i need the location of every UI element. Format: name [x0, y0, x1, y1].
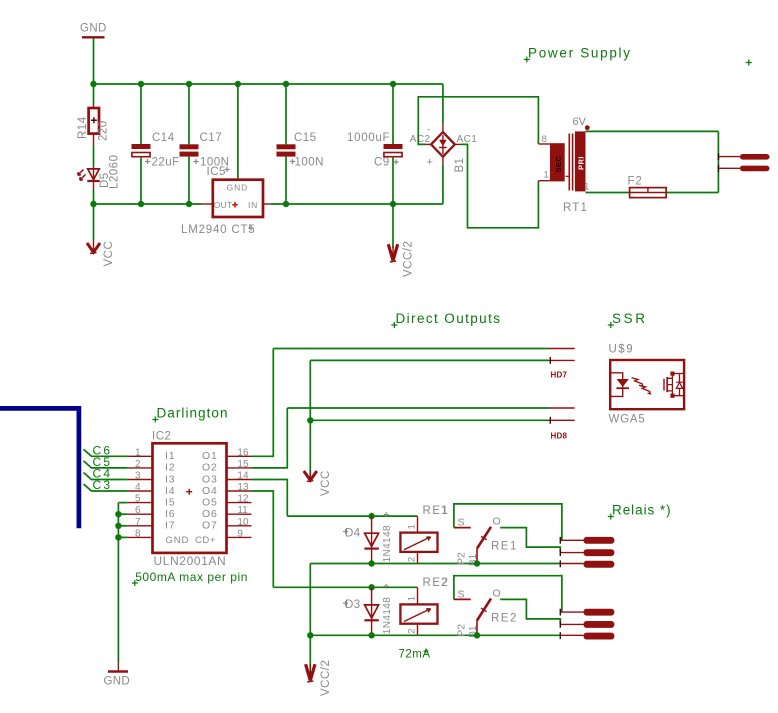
svg-text:1: 1: [544, 170, 549, 181]
contact arm: [477, 599, 491, 621]
wire VCC/2 stub down: [392, 204, 394, 248]
svg-text:P2: P2: [456, 552, 468, 565]
junction top bus at C17: [186, 81, 192, 87]
svg-text:RE1: RE1: [491, 541, 518, 553]
wire IC2 pin16 to HD7: [252, 349, 274, 457]
junction top bus at C14: [138, 81, 144, 87]
wire pin6 link: [118, 513, 127, 515]
svg-text:13: 13: [237, 482, 249, 493]
pivot pin P2/B1: [476, 549, 478, 564]
title Darlington: [152, 406, 228, 423]
primary winding PRI: [575, 131, 586, 191]
svg-text:D3: D3: [345, 599, 361, 611]
ground symbol GND (bottom): [104, 662, 130, 688]
wire IC2 pin13 to RE2 coil: [252, 491, 274, 587]
svg-text:I5: I5: [165, 496, 175, 508]
svg-text:1000uF: 1000uF: [347, 132, 390, 144]
junction bottom bus at C15: [283, 201, 289, 207]
svg-text:100N: 100N: [295, 157, 325, 169]
wire VCC vertical (HD7/HD8 common): [309, 360, 311, 478]
ground symbol GND (top left): [80, 23, 107, 38]
IC2 pin 14 (O3): [202, 471, 252, 486]
svg-text:I1: I1: [165, 450, 175, 462]
wire RE2 coil bottom (VCC/2): [310, 634, 560, 636]
svg-text:VCC/2: VCC/2: [403, 241, 415, 277]
svg-text:C15: C15: [294, 132, 317, 144]
label 500mA max per pin: [132, 570, 248, 586]
wire bridge minus output down to VCC rail: [442, 165, 444, 204]
svg-text:O6: O6: [202, 508, 218, 520]
IC2 pin 3 (I3): [128, 471, 176, 486]
wire O to middle connector pin: [500, 599, 560, 624]
svg-text:S: S: [458, 517, 465, 529]
pin stub SEC pin 8: [538, 143, 550, 145]
junction bottom bus at R14/D5: [90, 201, 96, 207]
svg-text:AC2: AC2: [410, 134, 431, 145]
svg-text:VCC: VCC: [103, 241, 115, 267]
junction pin 6: [115, 511, 121, 517]
pin stub IC5 OUT: [202, 203, 213, 205]
svg-text:11: 11: [237, 505, 248, 516]
svg-text:O: O: [493, 516, 501, 528]
pin HD8-2: [549, 417, 575, 424]
svg-text:16: 16: [237, 447, 249, 458]
svg-text:GND: GND: [80, 23, 107, 35]
svg-text:LM2940 CT5: LM2940 CT5: [181, 224, 255, 236]
svg-text:14: 14: [237, 471, 249, 482]
wire pin7 link: [118, 525, 127, 527]
svg-text:O7: O7: [202, 520, 218, 532]
svg-text:I2: I2: [165, 462, 175, 474]
svg-text:ULN2001AN: ULN2001AN: [154, 554, 227, 568]
supply symbol VCC/2 (under C9): [388, 241, 414, 277]
solid state relay U$9 WGA5: [609, 344, 685, 426]
junction top bus at R14: [90, 81, 96, 87]
svg-text:4: 4: [135, 482, 141, 493]
IC2 pin 6 (I6): [128, 505, 176, 520]
junction D4 cathode: [368, 560, 374, 566]
wire bus ripper C6 to pin 1: [84, 444, 128, 458]
wire IC5 GND pin to top bus: [237, 84, 239, 180]
wire HD8 top (from IC2 pin 15): [287, 407, 548, 409]
svg-text:8: 8: [542, 134, 547, 145]
svg-text:OUT: OUT: [214, 200, 233, 210]
svg-text:I6: I6: [165, 508, 175, 520]
label 72mA: [399, 649, 431, 661]
wire bottom bus right part: [271, 203, 443, 205]
svg-text:22uF: 22uF: [152, 157, 180, 169]
svg-text:6V: 6V: [573, 116, 587, 128]
relay contact RE1: [441, 504, 562, 567]
pin HD8-1: [549, 407, 575, 409]
pivot pin P2/B1: [476, 620, 478, 635]
wire RE1 coil bottom (VCC/2): [310, 563, 560, 565]
junction D3 cathode: [368, 632, 374, 638]
IC2 pin 12 (O5): [202, 494, 252, 509]
junction top bus at IC5 GND: [235, 81, 241, 87]
svg-text:HD7: HD7: [551, 371, 568, 380]
IC2 origin cross: [186, 489, 192, 495]
svg-text:I4: I4: [165, 485, 175, 497]
wire primary top to mains: [586, 130, 719, 132]
junction bottom bus at C14: [138, 201, 144, 207]
wire VCC/2 vertical (relays): [309, 564, 311, 679]
svg-text:1: 1: [407, 524, 418, 529]
junction top bus at C15: [283, 81, 289, 87]
wire bus to R14: [93, 84, 95, 105]
svg-text:VCC: VCC: [320, 470, 332, 496]
mains connector pin bottom: [718, 165, 769, 172]
title Power Supply: [524, 46, 632, 63]
svg-text:6: 6: [135, 505, 141, 516]
wire S top: [454, 504, 562, 540]
junction pin 8: [115, 534, 121, 540]
svg-text:Darlington: Darlington: [157, 406, 229, 421]
svg-text:O5: O5: [202, 496, 218, 508]
bridge rectifier B1: [410, 124, 477, 173]
wire pin8 link: [118, 536, 127, 538]
wire R14 to D5: [93, 145, 95, 167]
capacitor C15 100N: [277, 84, 325, 204]
svg-text:O: O: [493, 587, 501, 599]
svg-text:O1: O1: [202, 450, 218, 462]
supply symbol VCC/2 (bottom): [306, 660, 332, 696]
svg-text:P2: P2: [456, 624, 468, 637]
svg-text:L2060: L2060: [109, 155, 121, 189]
IC2 pin 5 (I5): [128, 494, 176, 509]
title Direct Outputs: [391, 311, 501, 328]
wire mains right vertical: [717, 131, 719, 192]
wire HD8 bottom (VCC): [310, 419, 548, 421]
wire bottom bus left part (VCC rail): [94, 203, 202, 205]
svg-text:2: 2: [441, 577, 447, 589]
supply symbol VCC (middle): [304, 470, 332, 496]
wire RE1 coil top: [287, 515, 417, 517]
IC2 pin 13 (O4): [202, 482, 252, 497]
svg-text:CD+: CD+: [195, 535, 216, 546]
svg-text:1: 1: [441, 505, 447, 517]
relay coil RE2: [400, 577, 449, 635]
resistor R14 220: [77, 104, 110, 145]
IC2 pin 7 (I7): [128, 517, 176, 532]
svg-text:IN: IN: [248, 200, 258, 210]
svg-text:2: 2: [407, 557, 418, 562]
pin stub IC5 IN: [263, 203, 271, 205]
svg-text:SEC: SEC: [554, 155, 563, 172]
wire HD7 top (from IC2 pin 16): [273, 348, 548, 350]
fuse F2: [628, 176, 667, 198]
IC2 pin 9 (CD+): [195, 528, 252, 545]
svg-text:C14: C14: [152, 132, 175, 144]
contact arm: [477, 527, 491, 549]
capacitor C9 1000uF: [347, 84, 403, 204]
wire fuse to mains vertical: [666, 192, 718, 194]
svg-text:GND: GND: [104, 676, 130, 688]
IC2 pin 2 (I2): [128, 459, 176, 474]
darlington array IC2 ULN2001AN: [152, 431, 227, 569]
wire GND to top bus: [93, 39, 95, 85]
wire IC2 pin14 to RE1 coil: [252, 480, 288, 517]
junction top bus at C9: [390, 81, 396, 87]
svg-text:2: 2: [135, 459, 141, 470]
IC2 pin 1 (I1): [128, 447, 176, 462]
svg-text:SSR: SSR: [612, 311, 648, 326]
svg-text:RE2: RE2: [491, 612, 518, 624]
svg-text:1: 1: [407, 596, 418, 601]
svg-text:D4: D4: [345, 528, 361, 540]
svg-text:U$9: U$9: [609, 344, 635, 356]
svg-text:RT1: RT1: [563, 202, 588, 214]
svg-text:F2: F2: [628, 176, 643, 188]
svg-text:8: 8: [135, 528, 141, 539]
wire HD7 bottom (VCC): [310, 359, 548, 361]
IC2 pin 11 (O6): [202, 505, 252, 520]
relay contact RE2: [441, 576, 562, 639]
wire IC2 pins 5-8 common (GND): [117, 503, 119, 662]
relay coil RE1: [400, 505, 449, 564]
svg-text:I7: I7: [165, 520, 175, 532]
svg-text:C9: C9: [374, 157, 390, 169]
svg-text:WGA5: WGA5: [609, 414, 646, 426]
svg-text:-: -: [427, 125, 430, 136]
svg-text:O4: O4: [202, 485, 218, 497]
junction pin 7: [115, 523, 121, 529]
IC2 pin 10 (O7): [202, 517, 252, 532]
svg-text:1N4148: 1N4148: [382, 525, 393, 562]
opto LED: [610, 373, 623, 397]
title Relais *): [608, 503, 672, 520]
svg-text:IC2: IC2: [152, 431, 171, 443]
mains connector pin top: [718, 153, 769, 160]
capacitor C14 22uF: [132, 84, 180, 204]
IC2 pin 8 (GND): [128, 528, 190, 545]
svg-text:2: 2: [407, 629, 418, 634]
bus (navy) from controller: [0, 408, 79, 528]
wire IC2 pin15 to HD8: [252, 408, 288, 468]
capacitor C17 100N: [180, 84, 230, 204]
svg-text:Relais *): Relais *): [612, 503, 672, 518]
svg-text:O3: O3: [202, 473, 218, 485]
title SSR: [608, 311, 648, 328]
svg-text:Direct Outputs: Direct Outputs: [396, 311, 502, 326]
output MOSFET: [663, 379, 665, 391]
svg-text:3: 3: [135, 471, 141, 482]
junction RE2 bottom wire: [307, 632, 313, 638]
pin S: [454, 598, 471, 600]
wire bus ripper C5 to pin 2: [84, 455, 128, 469]
connector pins RE1: [560, 537, 614, 568]
svg-text:1N4148: 1N4148: [382, 597, 393, 634]
svg-text:C17: C17: [200, 132, 223, 144]
svg-text:IC5: IC5: [207, 166, 226, 178]
svg-text:500mA max per pin: 500mA max per pin: [135, 570, 248, 584]
svg-text:HD8: HD8: [551, 432, 568, 441]
svg-text:GND: GND: [227, 182, 249, 192]
wire AC1 to transformer secondary bottom: [461, 144, 538, 227]
stray origin cross (top right): [746, 60, 752, 66]
wire RE2 coil top: [273, 586, 417, 588]
wire top bus (GND rail): [94, 83, 443, 85]
junction bottom bus at C9: [390, 201, 396, 207]
svg-text:1: 1: [584, 182, 589, 193]
junction D4 anode: [368, 513, 374, 519]
svg-text:5: 5: [135, 494, 141, 505]
svg-text:C3: C3: [93, 478, 113, 492]
secondary winding SEC: [550, 143, 565, 181]
svg-text:PRI: PRI: [577, 156, 586, 170]
wire O to middle connector pin: [500, 528, 560, 553]
wire AC2 to transformer secondary top: [418, 97, 538, 145]
svg-text:B1: B1: [454, 157, 466, 172]
svg-text:7: 7: [135, 517, 141, 528]
svg-text:+: +: [427, 157, 433, 169]
wire bus ripper C4 to pin 3: [84, 467, 128, 481]
svg-text:10: 10: [237, 517, 249, 528]
wire top bus to bridge: [442, 84, 444, 124]
svg-text:9: 9: [237, 528, 243, 539]
pin HD7-2: [549, 357, 575, 364]
IC2 pin 4 (I4): [128, 482, 176, 497]
supply symbol VCC (left): [87, 240, 115, 267]
transformer core: [568, 134, 570, 191]
junction bottom bus at C17: [186, 201, 192, 207]
svg-text:S: S: [458, 588, 465, 600]
IC2 pin 15 (O2): [202, 459, 252, 474]
transformer RT1: [538, 116, 589, 214]
svg-text:O2: O2: [202, 462, 218, 474]
wire primary bottom to fuse: [586, 192, 630, 194]
wire S top: [454, 576, 562, 612]
wire bus ripper C3 to pin 4: [84, 478, 128, 492]
light arrows: [632, 378, 652, 395]
IC2 pin 16 (O1): [202, 447, 252, 462]
svg-text:12: 12: [237, 494, 249, 505]
wire D5 to bottom bus: [93, 190, 95, 204]
pin S: [454, 527, 471, 529]
svg-text:220: 220: [98, 120, 110, 141]
svg-text:Power Supply: Power Supply: [528, 46, 632, 61]
svg-text:15: 15: [237, 459, 249, 470]
connector pins RE2: [560, 609, 614, 640]
junction D3 anode: [368, 584, 374, 590]
wire VCC stub down: [93, 204, 95, 240]
svg-text:R14: R14: [77, 116, 89, 139]
svg-text:I3: I3: [165, 473, 175, 485]
svg-text:AC1: AC1: [457, 134, 478, 145]
voltage regulator IC5 LM2940 CT5: [181, 166, 263, 236]
svg-text:GND: GND: [166, 535, 190, 546]
LED D5 L2060: [78, 155, 121, 190]
pin stub SEC pin 1: [538, 180, 550, 182]
diode D3 1N4148: [343, 584, 393, 636]
svg-text:1: 1: [135, 447, 141, 458]
junction HD8 bottom wire: [307, 417, 313, 423]
diode D4 1N4148: [343, 512, 393, 564]
pin HD7-1: [549, 348, 575, 350]
wire pin5 link: [118, 502, 127, 504]
svg-text:VCC/2: VCC/2: [320, 660, 332, 696]
